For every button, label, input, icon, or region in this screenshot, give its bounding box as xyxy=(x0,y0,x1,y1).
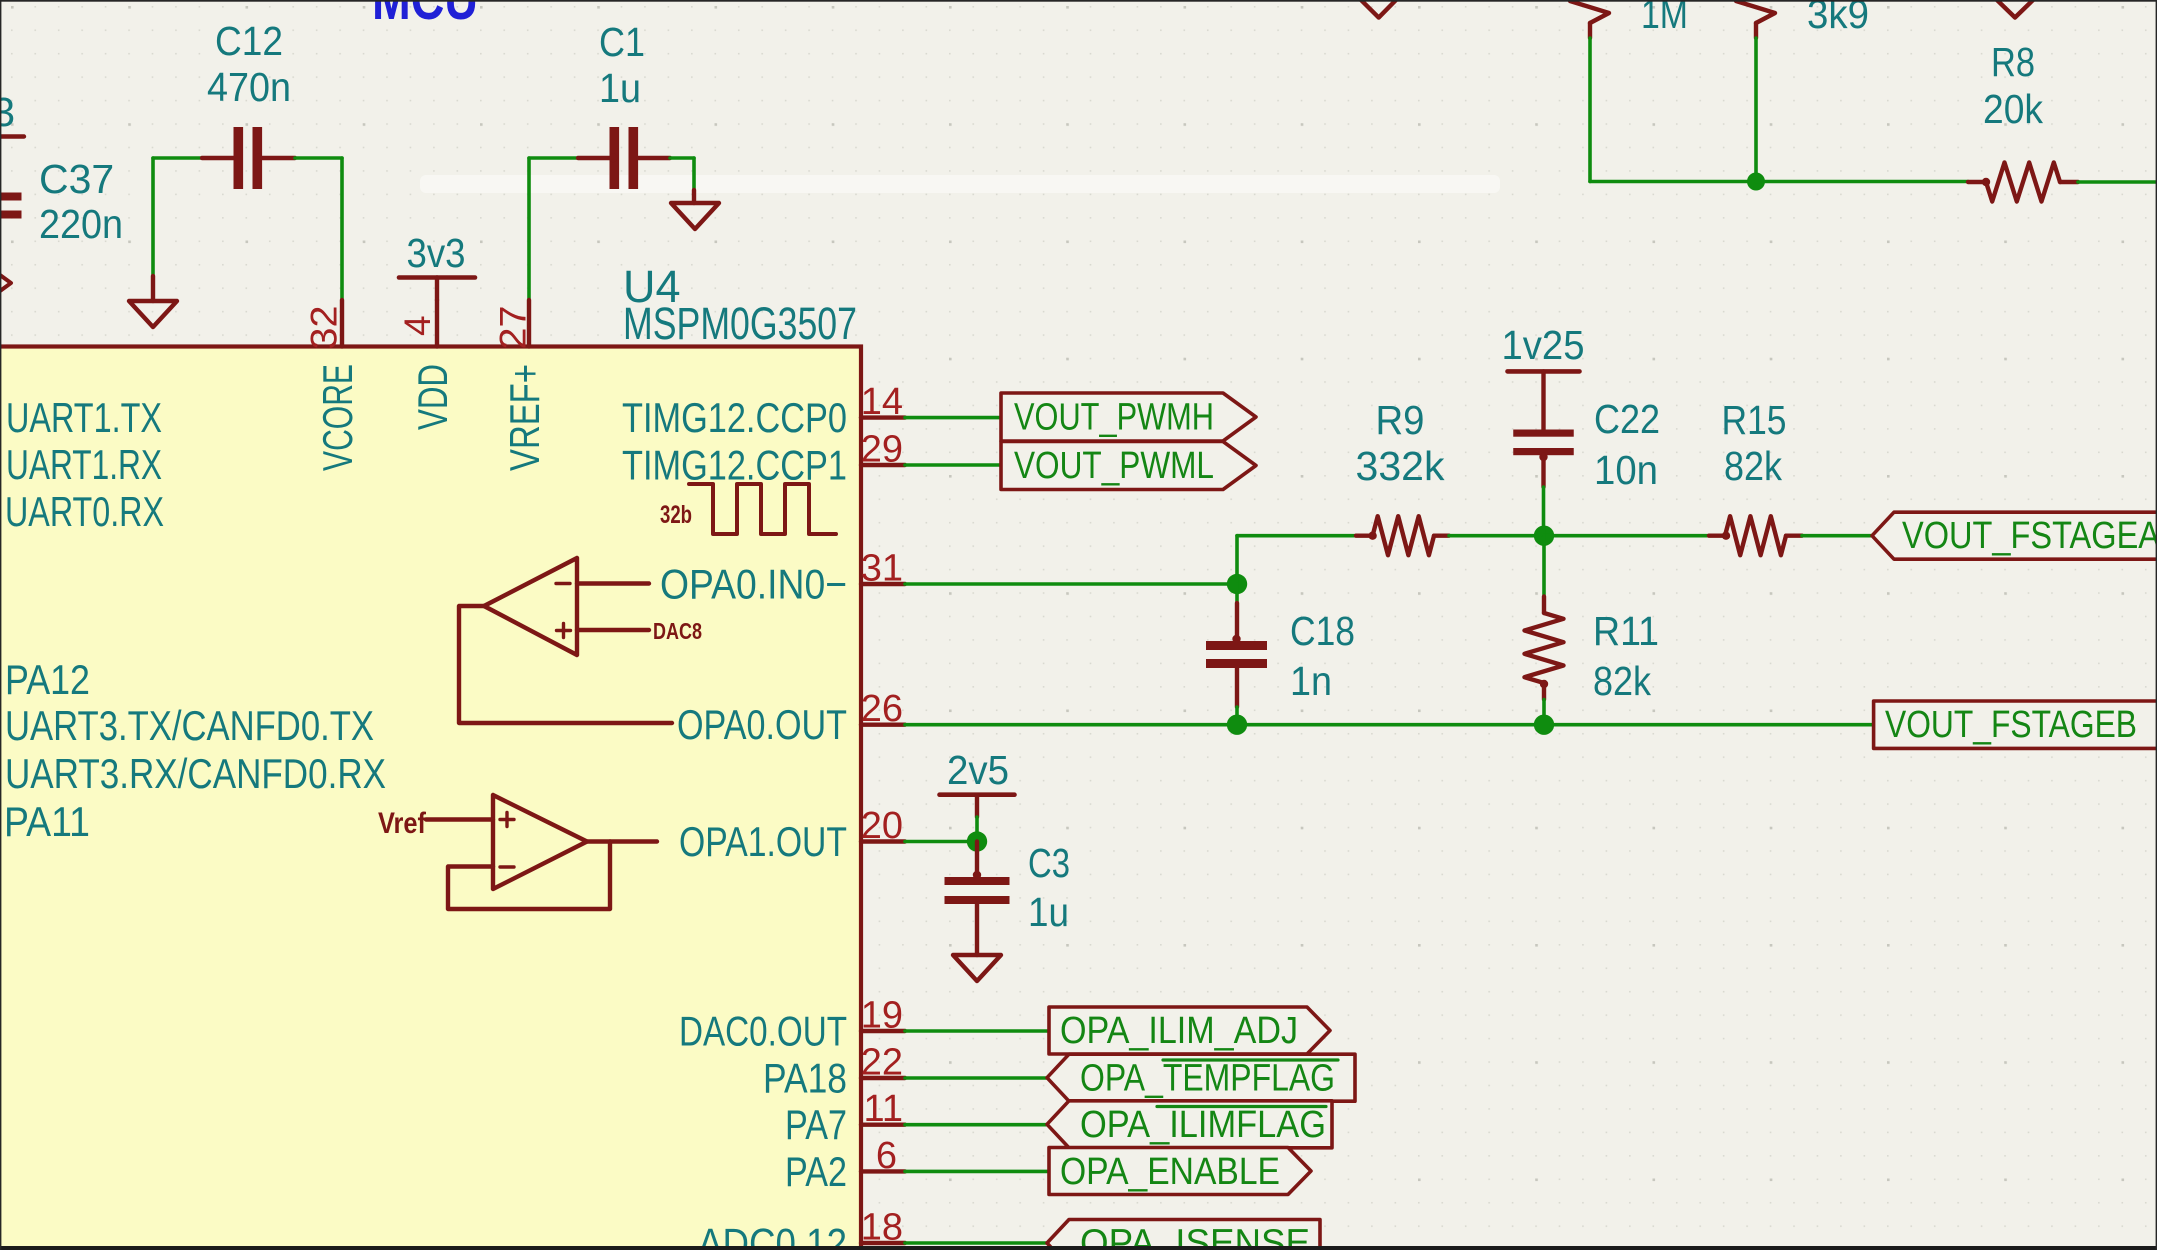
pin 27 (VREF+) xyxy=(493,300,549,471)
wire xyxy=(295,156,342,160)
svg-text:PA11: PA11 xyxy=(4,798,90,845)
global label OPA_ENABLE xyxy=(1049,1148,1311,1195)
svg-text:1u: 1u xyxy=(599,65,641,111)
svg-text:UART3.TX/CANFD0.TX: UART3.TX/CANFD0.TX xyxy=(5,702,374,749)
svg-text:VOUT_PWML: VOUT_PWML xyxy=(1014,445,1214,487)
wire xyxy=(1235,707,1239,725)
wire xyxy=(1544,534,1709,538)
svg-text:14: 14 xyxy=(861,381,903,423)
ground xyxy=(953,955,1001,981)
svg-text:31: 31 xyxy=(861,548,903,590)
wire xyxy=(905,1076,1047,1080)
pin 4 (VDD) xyxy=(397,300,456,430)
svg-text:OPA_ISENSE: OPA_ISENSE xyxy=(1080,1223,1310,1250)
svg-text:R9: R9 xyxy=(1376,397,1425,443)
svg-text:27: 27 xyxy=(493,306,534,350)
power 2v5 xyxy=(940,747,1015,817)
wire xyxy=(153,156,202,160)
wire xyxy=(1542,487,1546,536)
wire (OPA0 feedback) xyxy=(459,606,672,723)
pin 22 (PA18) xyxy=(763,1042,905,1102)
svg-text:6: 6 xyxy=(876,1135,897,1177)
wire xyxy=(529,156,578,160)
svg-text:C3: C3 xyxy=(1028,840,1070,886)
svg-text:332k: 332k xyxy=(1356,443,1445,489)
IC U4 MSPM0G3507 body xyxy=(0,261,861,1250)
svg-text:OPA0.IN0−: OPA0.IN0− xyxy=(660,561,847,608)
svg-text:OPA_ENABLE: OPA_ENABLE xyxy=(1060,1151,1280,1193)
svg-text:26: 26 xyxy=(861,688,903,730)
svg-text:OPA_ILIM_ADJ: OPA_ILIM_ADJ xyxy=(1060,1010,1298,1052)
svg-text:20k: 20k xyxy=(1983,86,2043,132)
svg-text:VOUT_FSTAGEA: VOUT_FSTAGEA xyxy=(1902,515,2157,557)
wire xyxy=(1802,534,1872,538)
global label OPA_ILIMFLAG xyxy=(1047,1101,1332,1148)
svg-text:ADC0.12: ADC0.12 xyxy=(698,1220,847,1250)
global label OPA_TEMPFLAG xyxy=(1047,1054,1355,1101)
wire xyxy=(905,1241,1047,1245)
wire xyxy=(905,1170,1049,1174)
svg-text:19: 19 xyxy=(861,995,903,1037)
svg-text:220n: 220n xyxy=(39,201,123,247)
resistor R9 332k xyxy=(1356,397,1450,555)
junction xyxy=(967,831,987,851)
pin name UART1.RX xyxy=(6,441,162,488)
capacitor C37 220n (cut at left edge) xyxy=(0,156,123,247)
capacitor C22 10n xyxy=(1513,396,1660,493)
wire xyxy=(975,817,979,842)
svg-text:1u: 1u xyxy=(1028,889,1069,935)
junction xyxy=(1227,715,1247,735)
pin name UART1.TX xyxy=(6,394,162,441)
square-wave symbol 32b xyxy=(660,484,836,534)
global label VOUT_PWML xyxy=(1001,442,1256,490)
wire xyxy=(1449,534,1544,538)
ground (cut at top edge) xyxy=(1361,0,1396,18)
ground xyxy=(129,276,177,327)
svg-text:C18: C18 xyxy=(1290,608,1355,654)
ground xyxy=(671,190,719,229)
svg-text:UART3.RX/CANFD0.RX: UART3.RX/CANFD0.RX xyxy=(5,750,386,797)
svg-text:2v5: 2v5 xyxy=(947,747,1009,793)
svg-text:PA2: PA2 xyxy=(785,1148,847,1195)
pin 32 (VCORE) xyxy=(304,300,362,471)
pin 26 (OPA0.OUT) xyxy=(677,688,905,748)
pin 29 (TIMG12.CCP1) xyxy=(622,429,905,489)
wire (OPA1 feedback) xyxy=(448,842,610,910)
svg-text:UART1.RX: UART1.RX xyxy=(6,441,162,488)
capacitor C3 1u xyxy=(945,840,1071,955)
svg-text:R11: R11 xyxy=(1593,608,1659,654)
power 1v25 xyxy=(1502,322,1585,430)
wire xyxy=(670,158,694,190)
svg-text:22: 22 xyxy=(861,1042,903,1084)
svg-text:32: 32 xyxy=(304,306,345,350)
junction xyxy=(1534,715,1554,735)
window edge bar left xyxy=(0,0,1,1250)
svg-text:470n: 470n xyxy=(207,64,291,110)
resistor 3k9 (cut at top edge) xyxy=(1736,0,1869,38)
window edge bar top xyxy=(0,0,2157,2)
svg-text:R15: R15 xyxy=(1722,397,1787,443)
pin name UART3.RX/CANFD0.RX xyxy=(5,750,386,797)
svg-text:DAC0.OUT: DAC0.OUT xyxy=(679,1008,847,1055)
wire xyxy=(905,463,1001,467)
svg-text:Vref: Vref xyxy=(378,807,427,840)
resistor 1M (cut at top edge) xyxy=(1570,0,1688,38)
svg-text:82k: 82k xyxy=(1593,658,1651,704)
pin 19 (DAC0.OUT) xyxy=(679,995,905,1055)
svg-text:PA18: PA18 xyxy=(763,1055,847,1102)
pin 31 (OPA0.IN0-) xyxy=(660,548,905,608)
svg-text:UART0.RX: UART0.RX xyxy=(5,488,164,535)
wire xyxy=(905,840,977,844)
power 3v3 xyxy=(399,230,475,300)
svg-text:VOUT_PWMH: VOUT_PWMH xyxy=(1014,397,1214,439)
wire xyxy=(905,1123,1047,1127)
resistor R15 82k xyxy=(1709,397,1802,555)
wire xyxy=(905,416,1001,420)
svg-text:3: 3 xyxy=(0,89,15,135)
pin 20 (OPA1.OUT) xyxy=(679,805,905,865)
svg-text:VDD: VDD xyxy=(409,364,456,430)
svg-text:TIMG12.CCP0: TIMG12.CCP0 xyxy=(622,394,847,441)
wire xyxy=(1756,180,1968,184)
pin 11 (PA7) xyxy=(785,1088,905,1148)
svg-text:10n: 10n xyxy=(1594,447,1658,493)
window edge bar right xyxy=(2156,0,2157,1250)
pin 18 (ADC0.12) xyxy=(698,1207,905,1250)
svg-text:C22: C22 xyxy=(1594,396,1660,442)
svg-text:1M: 1M xyxy=(1641,0,1688,37)
svg-text:OPA_TEMPFLAG: OPA_TEMPFLAG xyxy=(1080,1058,1335,1100)
capacitor C1 1u xyxy=(578,19,670,189)
svg-text:TIMG12.CCP1: TIMG12.CCP1 xyxy=(622,442,847,489)
resistor R11 82k xyxy=(1525,597,1660,705)
svg-text:R8: R8 xyxy=(1991,39,2035,85)
window edge bar bottom xyxy=(0,1246,2157,1250)
junction xyxy=(1534,526,1554,546)
pin 6 (PA2) xyxy=(785,1135,905,1195)
svg-text:OPA0.OUT: OPA0.OUT xyxy=(677,701,847,748)
wire xyxy=(905,723,1873,727)
svg-text:MSPM0G3507: MSPM0G3507 xyxy=(623,298,857,349)
pin 14 (TIMG12.CCP0) xyxy=(622,381,905,441)
svg-text:1v25: 1v25 xyxy=(1502,322,1585,368)
svg-text:C12: C12 xyxy=(215,18,283,64)
svg-text:3k9: 3k9 xyxy=(1807,0,1869,37)
wire xyxy=(1754,38,1758,182)
ghost band artifact xyxy=(420,175,1500,193)
wire xyxy=(905,1029,1049,1033)
svg-text:1n: 1n xyxy=(1290,658,1332,704)
svg-text:18: 18 xyxy=(861,1207,903,1249)
ground (cut at top edge) xyxy=(1997,0,2033,18)
svg-text:PA7: PA7 xyxy=(785,1101,847,1148)
svg-text:UART1.TX: UART1.TX xyxy=(6,394,162,441)
svg-text:VOUT_FSTAGEB: VOUT_FSTAGEB xyxy=(1885,704,2137,746)
svg-text:C1: C1 xyxy=(599,19,645,65)
svg-text:C37: C37 xyxy=(39,156,114,202)
wire xyxy=(340,158,344,300)
wire xyxy=(1590,38,1756,182)
op-amp OPA1 (inside U4) xyxy=(378,795,657,889)
svg-text:20: 20 xyxy=(861,805,903,847)
wire xyxy=(151,158,155,276)
svg-text:32b: 32b xyxy=(660,501,692,529)
svg-text:29: 29 xyxy=(861,429,903,471)
svg-text:VREF+: VREF+ xyxy=(501,364,548,471)
svg-text:3v3: 3v3 xyxy=(407,230,466,276)
symbol fragment (cut at left edge) xyxy=(0,275,11,291)
wire xyxy=(2078,180,2157,184)
capacitor C12 470n xyxy=(202,18,295,189)
global label VOUT_FSTAGEA xyxy=(1872,512,2157,559)
junction xyxy=(1747,173,1765,191)
svg-text:OPA_ILIMFLAG: OPA_ILIMFLAG xyxy=(1080,1104,1326,1146)
pin name UART3.TX/CANFD0.TX xyxy=(5,702,374,749)
wire xyxy=(1237,536,1356,584)
global label OPA_ISENSE xyxy=(1047,1220,1320,1250)
pin name UART0.RX xyxy=(5,488,164,535)
global label VOUT_PWMH xyxy=(1001,393,1256,441)
junction xyxy=(1227,574,1247,594)
svg-text:MCU: MCU xyxy=(372,0,478,32)
op-amp OPA0 (inside U4) xyxy=(484,558,702,655)
svg-text:OPA1.OUT: OPA1.OUT xyxy=(679,818,847,865)
resistor R8 20k xyxy=(1968,39,2078,202)
wire stub (cut at left edge) xyxy=(0,134,24,138)
wire xyxy=(1235,584,1239,603)
wire xyxy=(1542,536,1546,597)
svg-text:DAC8: DAC8 xyxy=(653,618,702,644)
wire xyxy=(527,158,531,300)
svg-text:82k: 82k xyxy=(1724,443,1782,489)
svg-text:11: 11 xyxy=(864,1088,903,1130)
pin name PA12 xyxy=(5,656,90,703)
svg-text:4: 4 xyxy=(397,315,438,336)
svg-text:VCORE: VCORE xyxy=(314,364,361,471)
pin name PA11 xyxy=(4,798,90,845)
wire xyxy=(1542,700,1546,725)
net label 3 (cut at left edge) xyxy=(0,89,15,135)
capacitor C18 1n xyxy=(1206,603,1355,707)
sheet title MCU xyxy=(372,0,478,32)
svg-text:PA12: PA12 xyxy=(5,656,90,703)
global label OPA_ILIM_ADJ xyxy=(1049,1007,1330,1054)
global label VOUT_FSTAGEB xyxy=(1874,701,2157,748)
wire xyxy=(905,582,1237,586)
